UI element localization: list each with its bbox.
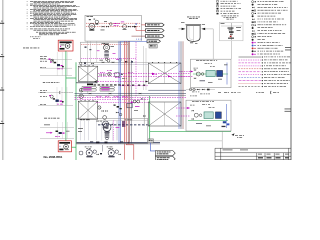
svg-text:No. 2008-0561: No. 2008-0561: [44, 155, 63, 159]
